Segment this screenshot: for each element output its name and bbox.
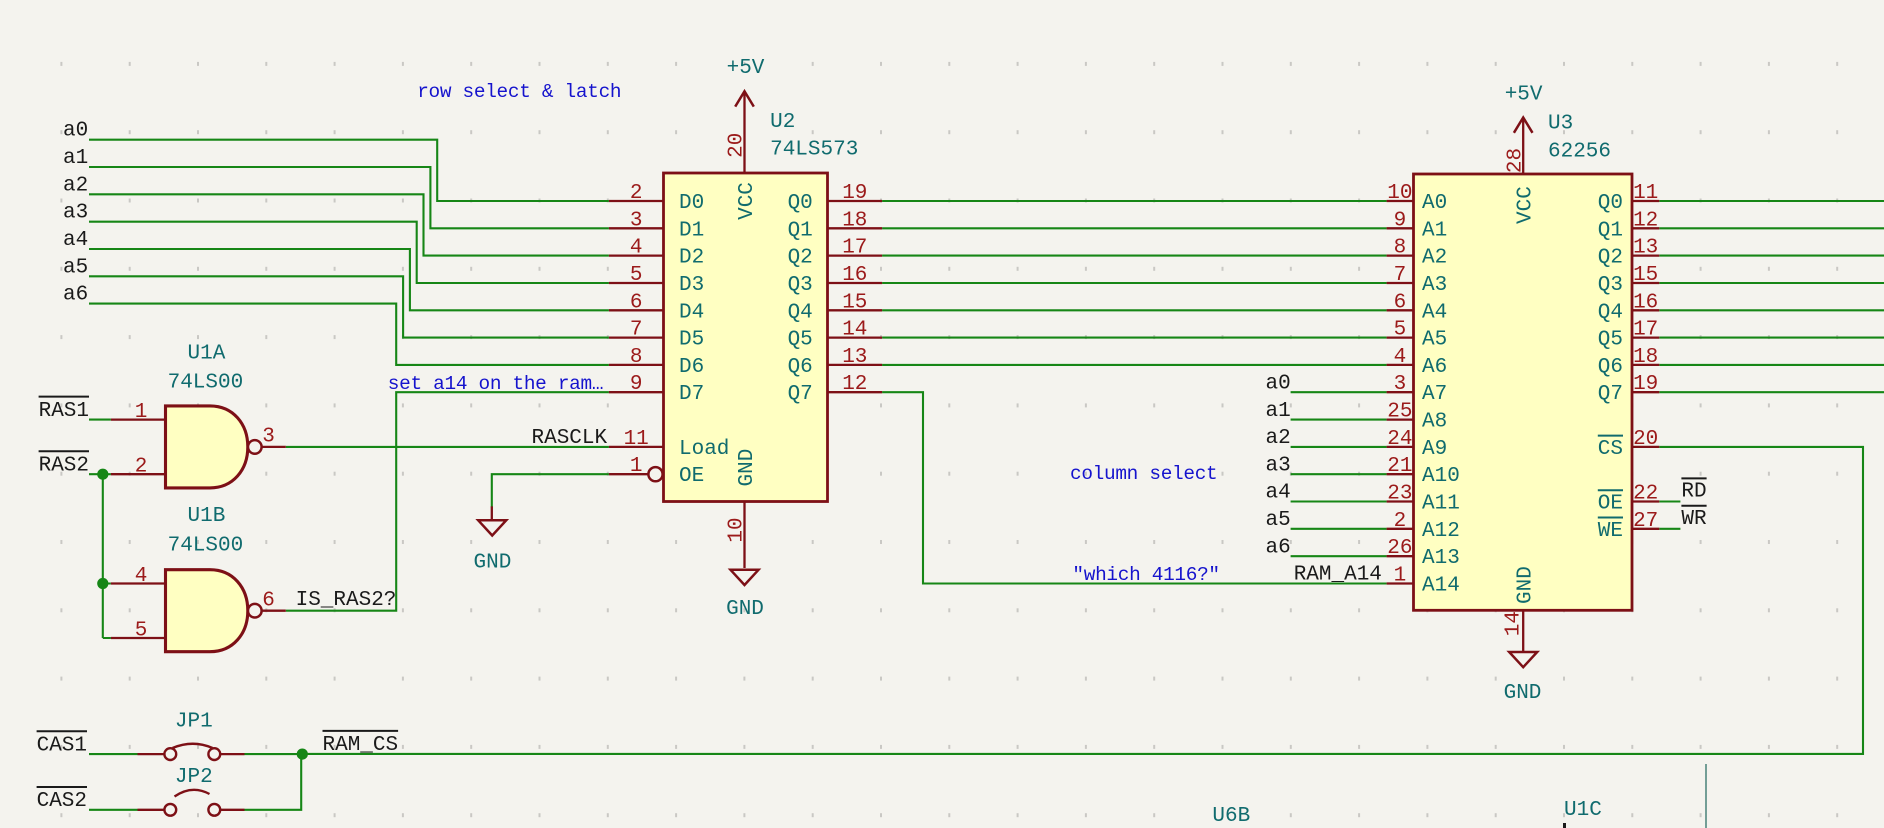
svg-text:A14: A14 <box>1422 575 1460 598</box>
svg-text:a3: a3 <box>63 202 88 225</box>
svg-text:a0: a0 <box>63 120 88 143</box>
svg-text:16: 16 <box>842 264 867 287</box>
svg-text:13: 13 <box>1633 237 1658 260</box>
svg-text:RAM_A14: RAM_A14 <box>1294 564 1382 587</box>
svg-text:A10: A10 <box>1422 465 1460 488</box>
svg-text:9: 9 <box>1394 209 1407 232</box>
svg-text:a6: a6 <box>1266 536 1291 559</box>
svg-text:4: 4 <box>630 237 643 260</box>
svg-text:Q1: Q1 <box>1598 219 1623 242</box>
svg-text:D6: D6 <box>679 356 704 379</box>
svg-text:RAS1: RAS1 <box>39 400 89 423</box>
svg-text:Q6: Q6 <box>788 356 813 379</box>
svg-text:74LS00: 74LS00 <box>168 372 244 395</box>
svg-text:a1: a1 <box>1266 400 1291 423</box>
svg-text:A3: A3 <box>1422 274 1447 297</box>
svg-text:11: 11 <box>624 428 649 451</box>
svg-text:23: 23 <box>1387 483 1412 506</box>
svg-text:CAS2: CAS2 <box>37 790 87 813</box>
svg-text:3: 3 <box>262 426 275 449</box>
svg-text:D3: D3 <box>679 274 704 297</box>
svg-text:GND: GND <box>736 449 759 487</box>
svg-text:Q5: Q5 <box>788 329 813 352</box>
svg-text:9: 9 <box>630 373 643 396</box>
svg-text:IS_RAS2?: IS_RAS2? <box>296 589 397 612</box>
svg-text:A4: A4 <box>1422 301 1447 324</box>
svg-text:7: 7 <box>1394 264 1407 287</box>
svg-text:Q4: Q4 <box>788 301 813 324</box>
svg-text:column select: column select <box>1070 463 1217 485</box>
svg-text:Q3: Q3 <box>788 274 813 297</box>
svg-text:GND: GND <box>1515 566 1538 604</box>
svg-text:a5: a5 <box>63 256 88 279</box>
svg-text:GND: GND <box>726 598 764 621</box>
svg-text:OE: OE <box>1598 493 1623 516</box>
svg-text:5: 5 <box>630 264 643 287</box>
svg-text:VCC: VCC <box>1515 186 1538 224</box>
svg-text:12: 12 <box>842 373 867 396</box>
svg-text:1: 1 <box>630 455 643 478</box>
svg-text:28: 28 <box>1504 148 1527 173</box>
svg-text:VCC: VCC <box>736 182 759 220</box>
svg-text:20: 20 <box>1633 428 1658 451</box>
svg-text:RD: RD <box>1681 481 1706 504</box>
svg-text:74LS573: 74LS573 <box>770 139 858 162</box>
svg-text:2: 2 <box>630 182 643 205</box>
svg-text:10: 10 <box>1387 182 1412 205</box>
svg-text:17: 17 <box>1633 319 1658 342</box>
svg-text:2: 2 <box>1394 510 1407 533</box>
svg-text:15: 15 <box>842 291 867 314</box>
svg-text:WE: WE <box>1598 520 1623 543</box>
svg-text:A12: A12 <box>1422 520 1460 543</box>
svg-text:U3: U3 <box>1548 113 1573 136</box>
svg-text:10: 10 <box>725 517 748 542</box>
svg-text:A2: A2 <box>1422 247 1447 270</box>
svg-text:D7: D7 <box>679 383 704 406</box>
svg-text:row select & latch: row select & latch <box>417 81 621 103</box>
svg-text:U2: U2 <box>770 111 795 134</box>
svg-text:RAM_CS: RAM_CS <box>323 734 399 757</box>
svg-text:"which 4116?": "which 4116?" <box>1072 564 1219 586</box>
svg-text:set a14 on the ram…: set a14 on the ram… <box>388 373 603 395</box>
svg-text:11: 11 <box>1633 182 1658 205</box>
svg-text:Q7: Q7 <box>1598 383 1623 406</box>
svg-text:62256: 62256 <box>1548 140 1611 163</box>
svg-text:12: 12 <box>1633 209 1658 232</box>
svg-text:a2: a2 <box>1266 427 1291 450</box>
svg-text:Q3: Q3 <box>1598 274 1623 297</box>
svg-text:RAS2: RAS2 <box>39 455 89 478</box>
svg-text:D1: D1 <box>679 219 704 242</box>
svg-text:19: 19 <box>1633 373 1658 396</box>
svg-text:Q2: Q2 <box>1598 247 1623 270</box>
svg-text:CAS1: CAS1 <box>37 735 87 758</box>
svg-text:U1A: U1A <box>188 342 226 365</box>
svg-text:8: 8 <box>630 346 643 369</box>
svg-text:D4: D4 <box>679 301 704 324</box>
svg-text:a0: a0 <box>1266 372 1291 395</box>
svg-text:16: 16 <box>1633 291 1658 314</box>
svg-text:3: 3 <box>1394 373 1407 396</box>
svg-text:Load: Load <box>679 438 729 461</box>
svg-text:13: 13 <box>842 346 867 369</box>
svg-text:17: 17 <box>842 237 867 260</box>
svg-text:15: 15 <box>1633 264 1658 287</box>
svg-text:5: 5 <box>1394 319 1407 342</box>
svg-text:A13: A13 <box>1422 547 1460 570</box>
svg-text:8: 8 <box>1394 237 1407 260</box>
svg-text:a1: a1 <box>63 147 88 170</box>
svg-text:a3: a3 <box>1266 454 1291 477</box>
svg-text:U6B: U6B <box>1212 805 1250 828</box>
svg-text:A9: A9 <box>1422 438 1447 461</box>
svg-text:22: 22 <box>1633 483 1658 506</box>
svg-text:a4: a4 <box>1266 482 1291 505</box>
svg-text:D0: D0 <box>679 192 704 215</box>
svg-text:A1: A1 <box>1422 219 1447 242</box>
svg-text:A11: A11 <box>1422 493 1460 516</box>
svg-text:14: 14 <box>1503 611 1526 636</box>
svg-text:A8: A8 <box>1422 411 1447 434</box>
svg-text:A7: A7 <box>1422 383 1447 406</box>
svg-text:D2: D2 <box>679 247 704 270</box>
svg-text:GND: GND <box>1504 682 1542 705</box>
svg-text:5: 5 <box>135 620 148 643</box>
svg-text:+5V: +5V <box>1505 83 1543 106</box>
svg-text:7: 7 <box>630 319 643 342</box>
svg-text:Q6: Q6 <box>1598 356 1623 379</box>
svg-text:Q5: Q5 <box>1598 329 1623 352</box>
svg-text:A0: A0 <box>1422 192 1447 215</box>
svg-text:a4: a4 <box>63 229 88 252</box>
svg-text:A6: A6 <box>1422 356 1447 379</box>
svg-text:U1C: U1C <box>1564 799 1602 822</box>
svg-text:a5: a5 <box>1266 509 1291 532</box>
svg-text:WR: WR <box>1681 508 1707 531</box>
svg-text:OE: OE <box>679 465 704 488</box>
svg-text:CS: CS <box>1598 438 1623 461</box>
svg-text:18: 18 <box>842 209 867 232</box>
svg-text:RASCLK: RASCLK <box>532 427 608 450</box>
svg-text:4: 4 <box>1394 346 1407 369</box>
svg-text:4: 4 <box>135 565 148 588</box>
svg-text:6: 6 <box>262 589 275 612</box>
svg-text:D5: D5 <box>679 329 704 352</box>
svg-text:1: 1 <box>135 401 148 424</box>
svg-text:+5V: +5V <box>727 57 765 80</box>
svg-text:Q2: Q2 <box>788 247 813 270</box>
svg-text:U1B: U1B <box>188 505 226 528</box>
svg-text:74LS00: 74LS00 <box>168 534 244 557</box>
svg-text:GND: GND <box>473 552 511 575</box>
svg-text:Q1: Q1 <box>788 219 813 242</box>
svg-text:18: 18 <box>1633 346 1658 369</box>
svg-text:3: 3 <box>630 209 643 232</box>
svg-text:24: 24 <box>1387 428 1412 451</box>
svg-text:A5: A5 <box>1422 329 1447 352</box>
svg-text:Q0: Q0 <box>788 192 813 215</box>
svg-text:a2: a2 <box>63 174 88 197</box>
svg-text:Q7: Q7 <box>788 383 813 406</box>
svg-text:1: 1 <box>1394 565 1407 588</box>
svg-text:2: 2 <box>135 456 148 479</box>
svg-text:Q4: Q4 <box>1598 301 1623 324</box>
svg-text:JP1: JP1 <box>175 711 213 734</box>
svg-text:6: 6 <box>630 291 643 314</box>
svg-text:19: 19 <box>842 182 867 205</box>
svg-text:26: 26 <box>1387 537 1412 560</box>
svg-text:6: 6 <box>1394 291 1407 314</box>
svg-text:a6: a6 <box>63 284 88 307</box>
svg-text:Q0: Q0 <box>1598 192 1623 215</box>
svg-text:14: 14 <box>842 319 867 342</box>
svg-text:25: 25 <box>1387 401 1412 424</box>
svg-text:27: 27 <box>1633 510 1658 533</box>
svg-text:JP2: JP2 <box>175 766 213 789</box>
svg-text:20: 20 <box>725 133 748 158</box>
svg-text:21: 21 <box>1387 455 1412 478</box>
